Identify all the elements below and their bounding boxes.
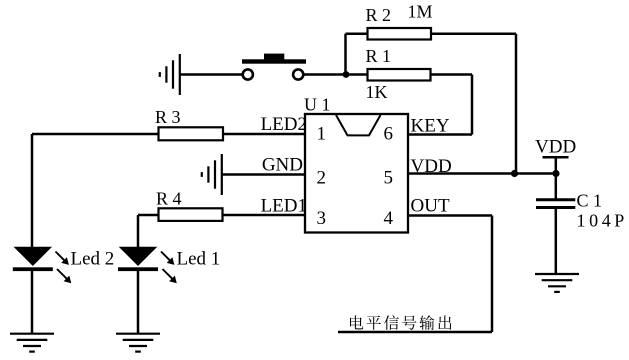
- svg-text:1: 1: [317, 124, 327, 145]
- svg-text:6: 6: [384, 124, 394, 145]
- svg-text:GND: GND: [262, 155, 303, 176]
- svg-text:LED1: LED1: [261, 196, 307, 217]
- svg-text:U 1: U 1: [304, 95, 331, 115]
- svg-text:R 4: R 4: [156, 189, 182, 209]
- svg-text:R 2: R 2: [366, 5, 392, 25]
- svg-text:2: 2: [317, 168, 327, 189]
- svg-text:KEY: KEY: [411, 116, 450, 137]
- svg-text:104P: 104P: [577, 211, 628, 231]
- svg-text:Led 1: Led 1: [177, 249, 221, 270]
- svg-text:3: 3: [317, 208, 327, 229]
- svg-text:1M: 1M: [408, 2, 433, 22]
- svg-text:R 1: R 1: [366, 46, 392, 66]
- svg-text:VDD: VDD: [535, 137, 576, 158]
- svg-text:R 3: R 3: [155, 107, 181, 127]
- svg-text:VDD: VDD: [411, 156, 452, 177]
- svg-text:1K: 1K: [366, 82, 388, 102]
- svg-text:Led 2: Led 2: [71, 249, 115, 270]
- svg-text:OUT: OUT: [411, 196, 450, 217]
- svg-text:LED2: LED2: [261, 114, 307, 135]
- svg-text:C 1: C 1: [577, 191, 603, 211]
- svg-text:4: 4: [384, 208, 394, 229]
- svg-text:5: 5: [384, 168, 394, 189]
